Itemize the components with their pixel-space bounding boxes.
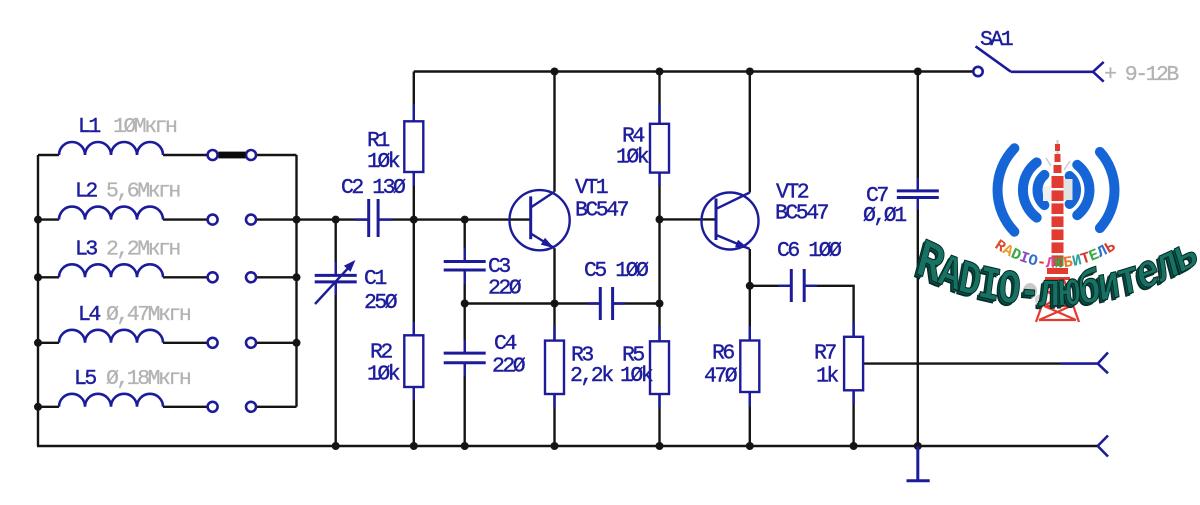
svg-text:Ø,18Мкгн: Ø,18Мкгн	[106, 367, 190, 391]
svg-text:BC547: BC547	[775, 202, 829, 226]
svg-text:1Øk: 1Øk	[367, 150, 400, 174]
svg-text:1Øk: 1Øk	[367, 363, 400, 387]
svg-text:C4: C4	[494, 332, 516, 356]
svg-text:R6: R6	[712, 342, 734, 366]
svg-text:22Ø: 22Ø	[492, 355, 526, 379]
svg-text:L2: L2	[75, 180, 97, 204]
svg-text:R2: R2	[370, 341, 392, 365]
svg-text:25Ø: 25Ø	[364, 291, 398, 315]
svg-text:1Øk: 1Øk	[620, 364, 653, 388]
svg-text:L3: L3	[75, 237, 97, 261]
svg-text:22Ø: 22Ø	[488, 277, 522, 301]
svg-text:C5 1ØØ: C5 1ØØ	[584, 259, 649, 283]
svg-text:VT2: VT2	[776, 180, 809, 204]
svg-text:SA1: SA1	[980, 28, 1013, 52]
svg-text:BC547: BC547	[575, 199, 629, 223]
svg-text:L5: L5	[74, 367, 96, 391]
svg-text:C3: C3	[488, 255, 510, 279]
svg-text:Ø,Ø1: Ø,Ø1	[863, 204, 906, 228]
svg-text:2,2Мкгн: 2,2Мкгн	[106, 237, 179, 261]
svg-text:1k: 1k	[816, 365, 838, 389]
svg-text:5,6Мкгн: 5,6Мкгн	[106, 180, 179, 204]
svg-text:L1: L1	[78, 115, 100, 139]
svg-text:+ 9-12В: + 9-12В	[1104, 63, 1179, 87]
svg-text:C2 13Ø: C2 13Ø	[341, 176, 406, 200]
svg-text:R7: R7	[814, 342, 836, 366]
svg-text:C1: C1	[364, 267, 386, 291]
svg-text:Ø,47Мкгн: Ø,47Мкгн	[106, 303, 190, 327]
svg-text:1ØМкгн: 1ØМкгн	[113, 115, 176, 139]
svg-text:1Øk: 1Øk	[616, 146, 649, 170]
svg-text:VT1: VT1	[575, 176, 608, 200]
svg-text:L4: L4	[78, 303, 100, 327]
svg-text:47Ø: 47Ø	[704, 365, 738, 389]
svg-text:C6 1ØØ: C6 1ØØ	[777, 239, 842, 263]
svg-text:2,2k: 2,2k	[570, 364, 613, 388]
